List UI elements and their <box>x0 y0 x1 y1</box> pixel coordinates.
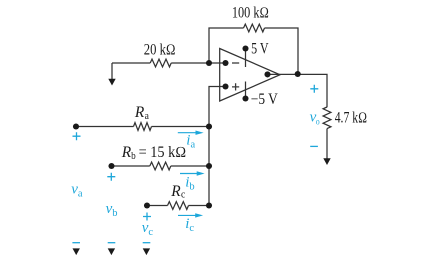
svg-text:20 kΩ: 20 kΩ <box>144 41 176 58</box>
svg-text:a: a <box>145 110 149 122</box>
svg-text:−5 V: −5 V <box>251 91 279 108</box>
svg-text:5 V: 5 V <box>251 41 269 58</box>
svg-text:o: o <box>316 117 320 127</box>
svg-text:4.7 kΩ: 4.7 kΩ <box>335 110 367 127</box>
svg-text:R: R <box>134 104 145 121</box>
svg-text:R: R <box>170 183 181 200</box>
svg-text:100 kΩ: 100 kΩ <box>232 5 269 22</box>
svg-text:= 15 kΩ: = 15 kΩ <box>139 144 187 161</box>
